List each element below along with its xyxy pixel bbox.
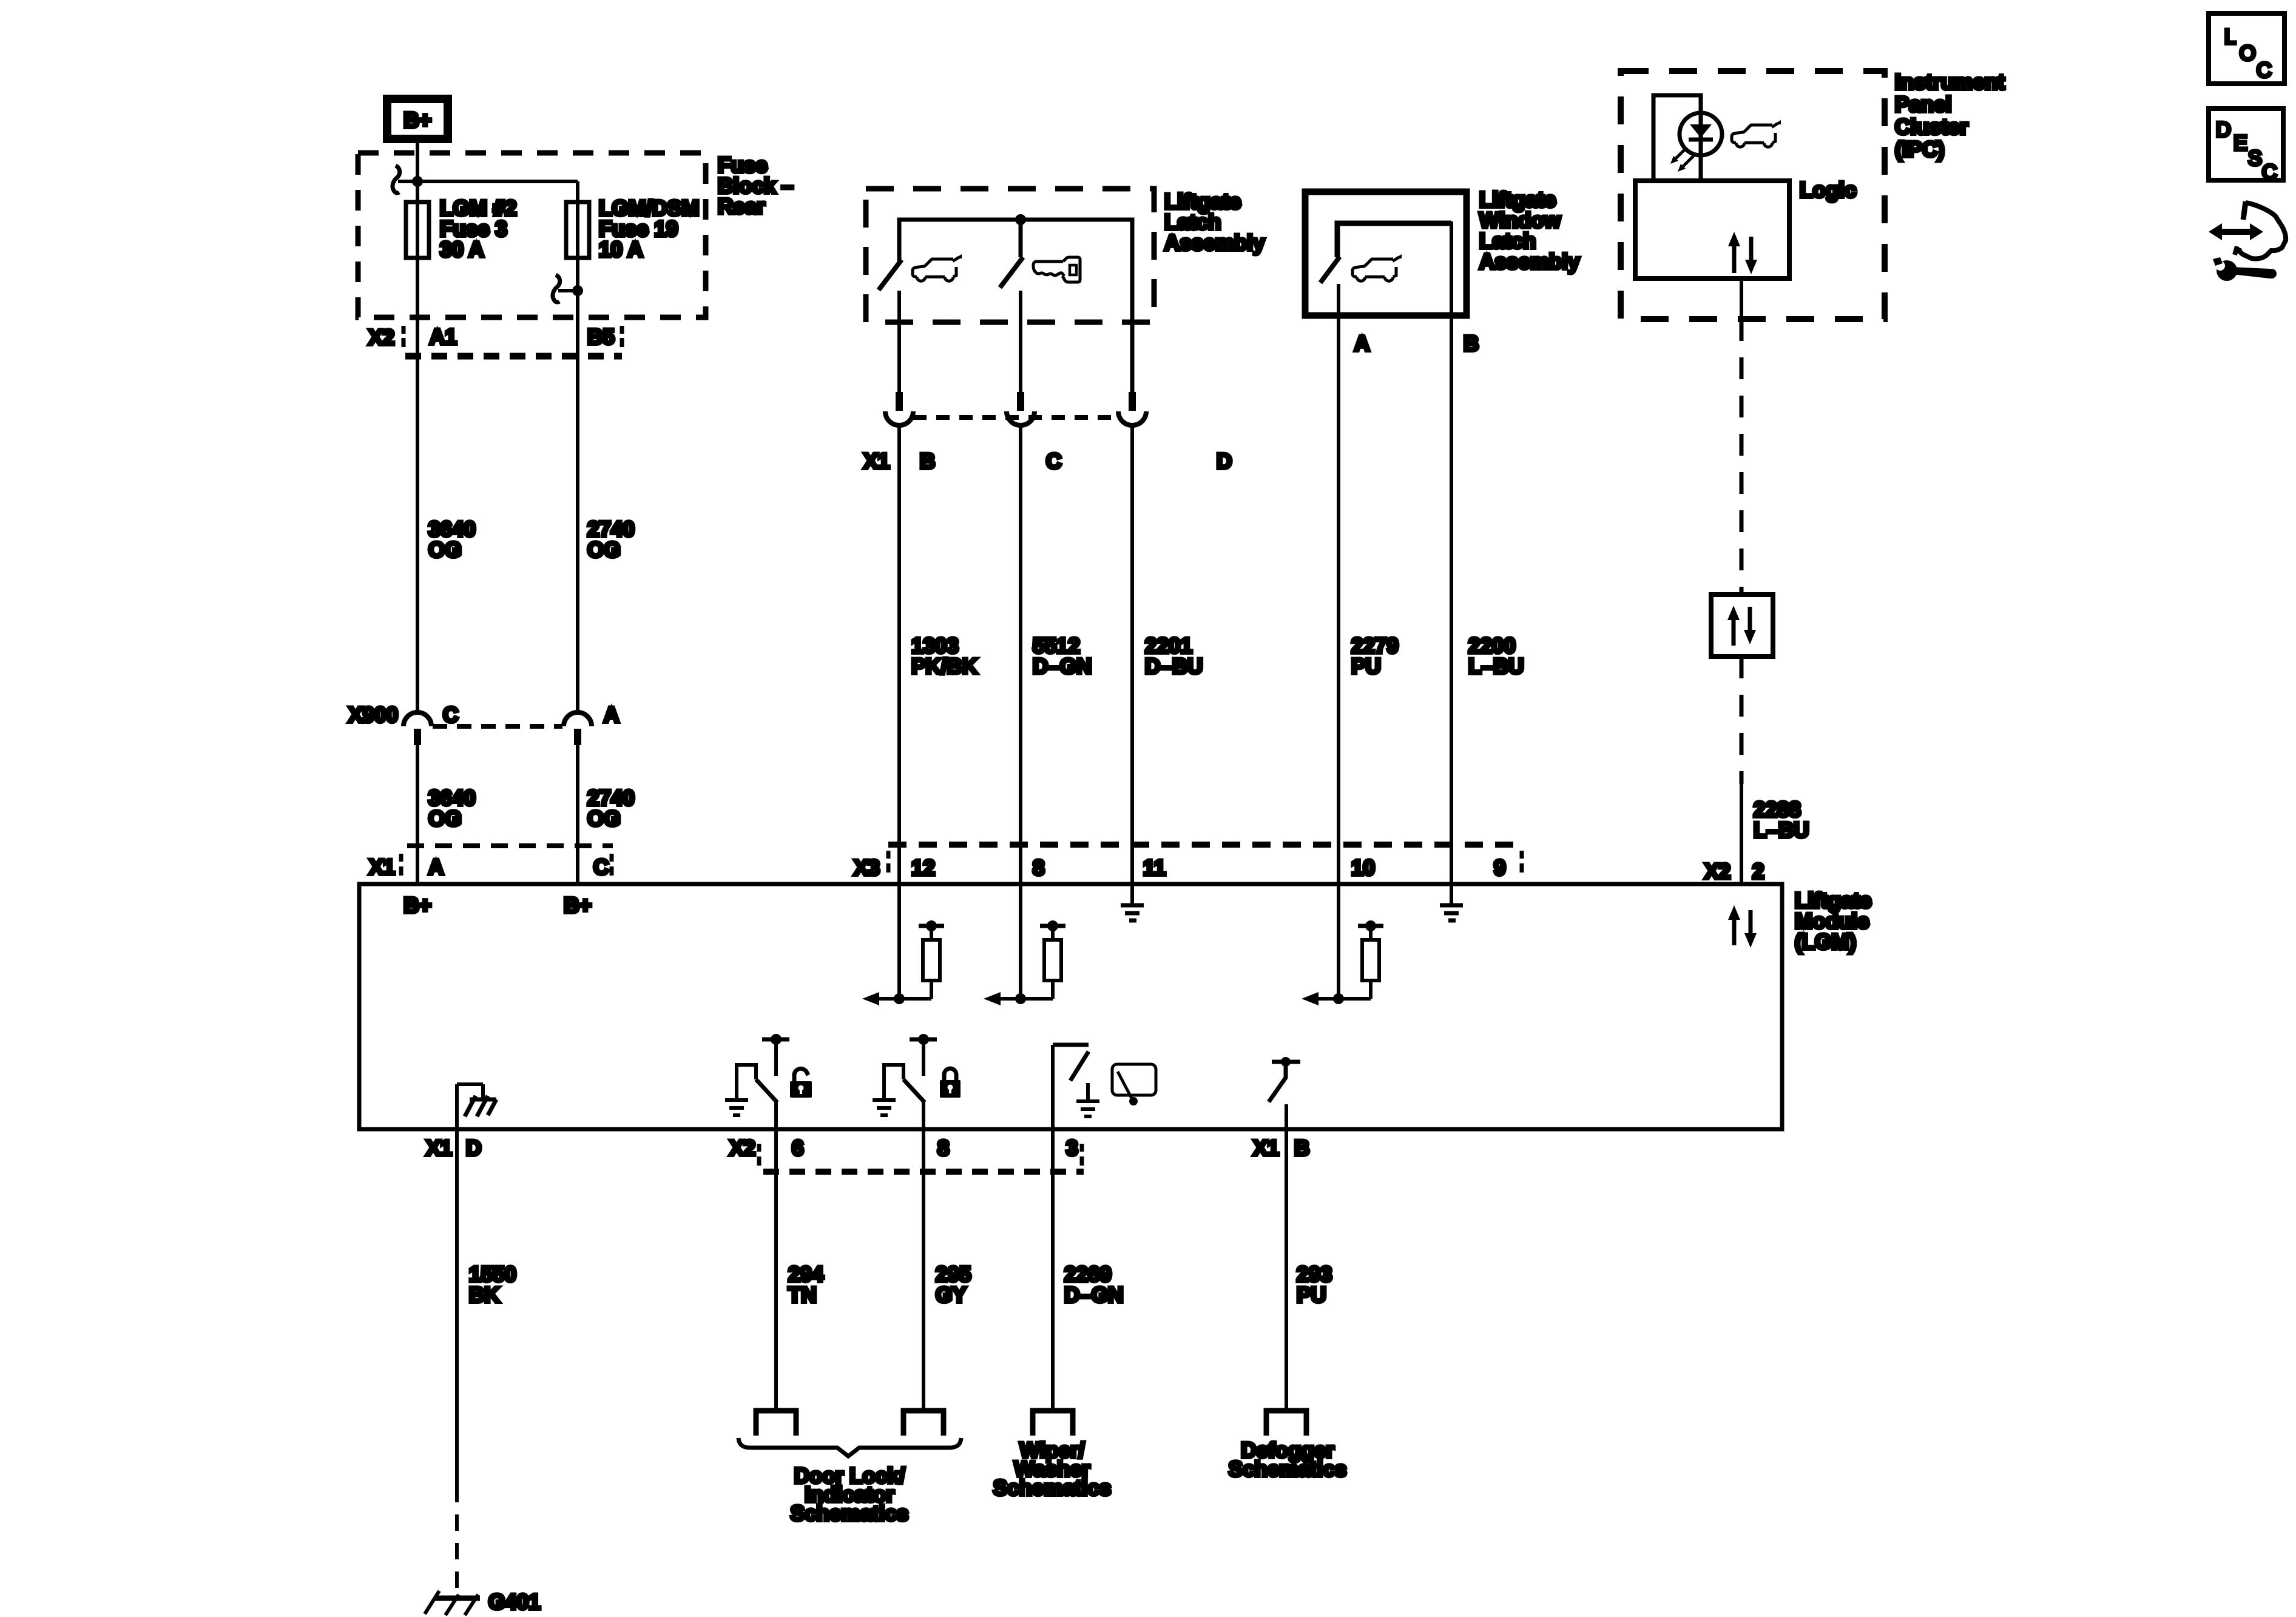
svg-text:L–BU: L–BU [1468, 655, 1524, 678]
LGM serial data arrows [1732, 916, 1737, 945]
svg-text:Schematics: Schematics [1229, 1457, 1347, 1481]
connector X3 dash marks [886, 851, 891, 859]
svg-text:C: C [1046, 450, 1061, 473]
svg-text:Assembly: Assembly [1479, 250, 1580, 274]
icon key [1033, 257, 1080, 282]
svg-text:D: D [2216, 118, 2231, 141]
svg-text:X1: X1 [369, 856, 395, 879]
resistor pull-up [923, 940, 940, 981]
svg-text:Instrument: Instrument [1895, 70, 2005, 94]
wire 3640 OG lower [416, 745, 419, 882]
connector X1 latch dashed link [913, 415, 1118, 420]
svg-text:Schematics: Schematics [993, 1476, 1112, 1500]
IPC indicator housing [1653, 95, 1701, 181]
svg-text:B+: B+ [403, 894, 431, 917]
node wire junction [894, 993, 905, 1004]
off-page terminal 293 [1266, 1411, 1306, 1436]
svg-text:BK: BK [469, 1283, 500, 1307]
signal arrow into module [1302, 992, 1319, 1005]
svg-text:PU: PU [1351, 655, 1381, 678]
wire 1550 BK [455, 1130, 459, 1486]
wire fuse 3 output [416, 260, 419, 713]
fuse LGM #2 Fuse 3 30A [416, 202, 419, 260]
svg-text:X2: X2 [368, 326, 394, 349]
svg-text:A: A [428, 856, 444, 879]
svg-text:Assembly: Assembly [1164, 231, 1265, 255]
wire logic output [1740, 279, 1743, 319]
icon car liftgate (latch) [913, 257, 961, 282]
svg-text:8: 8 [1033, 856, 1044, 880]
chassis ground pin D internal [455, 1084, 459, 1130]
wire B+ to fuse LGM #2 [416, 139, 419, 202]
svg-text:3: 3 [1066, 1136, 1078, 1160]
svg-text:2: 2 [1752, 860, 1764, 883]
wire 2201 D-BU [1130, 425, 1134, 905]
svg-text:S: S [2248, 147, 2262, 170]
splice hook at B+ junction [393, 166, 400, 193]
svg-text:PK/BK: PK/BK [911, 655, 977, 678]
node wire junction [1015, 993, 1026, 1004]
switch contact T pin 1279 [762, 1038, 789, 1042]
splice hook below fuse 19 [553, 275, 560, 302]
svg-text:D: D [1217, 450, 1232, 473]
icon arrow hand wrench [2209, 201, 2286, 281]
wire junction to fuse 19 [417, 180, 578, 183]
off-page terminal 2269 [1033, 1411, 1073, 1436]
connector X900 dashed link [433, 724, 562, 729]
svg-text:D–GN: D–GN [1033, 655, 1092, 678]
connector X1 LGM dashed line [407, 843, 613, 848]
switch ground hook [737, 1065, 756, 1099]
liftgate module LGM box [359, 884, 1782, 1129]
svg-text:(LGM): (LGM) [1795, 930, 1856, 954]
connector X3 dashed line [888, 842, 1522, 848]
node junction fuse 19 output [572, 285, 583, 296]
svg-text:L–BU: L–BU [1754, 819, 1809, 842]
ground pin 9 internal [1450, 886, 1453, 905]
connector X1 latch: pins B C D [896, 392, 903, 411]
svg-text:B: B [920, 450, 935, 473]
svg-text:9: 9 [1494, 856, 1505, 880]
svg-text:G401: G401 [488, 1590, 541, 1614]
wire 295 GY [922, 1101, 925, 1408]
connector X2 bottom dash marks [757, 1144, 761, 1152]
svg-text:X2: X2 [1704, 860, 1730, 883]
svg-text:X900: X900 [348, 703, 398, 727]
wire 5512 D-GN [1019, 425, 1022, 999]
LOC reference box [2209, 13, 2284, 84]
svg-text:OG: OG [587, 807, 620, 831]
signal arrow into module [862, 992, 879, 1005]
key cylinder switch [1019, 220, 1023, 257]
svg-text:OG: OG [428, 807, 461, 831]
switch blade [903, 1079, 925, 1102]
fuse block dashed box [358, 153, 706, 317]
LED light arrows [1676, 148, 1686, 158]
wire 294 TN [774, 1101, 778, 1408]
icon padlock open [790, 1068, 812, 1098]
switch ground hook [884, 1065, 903, 1099]
svg-text:B+: B+ [564, 894, 592, 917]
latch internal bus wire [899, 220, 1132, 393]
connector X900 pin C [403, 712, 431, 726]
svg-text:O: O [2240, 42, 2255, 65]
power symbol B+ [387, 99, 448, 139]
fuse LGM/DSM Fuse 19 10A [576, 202, 579, 260]
icon car liftgate (window latch) [1352, 257, 1400, 282]
svg-text:X3: X3 [854, 856, 880, 880]
svg-text:C: C [2257, 59, 2272, 82]
wiper driver switch pin 3 [1051, 1045, 1055, 1130]
wire fuse 19 output [576, 260, 579, 713]
svg-text:11: 11 [1143, 856, 1166, 880]
off-page terminal 295 [903, 1411, 944, 1436]
svg-text:PU: PU [1297, 1283, 1326, 1307]
dashed wire IPC serial data lower [1740, 657, 1744, 784]
wire 2740 OG lower [576, 745, 579, 882]
svg-text:B+: B+ [403, 109, 431, 132]
svg-text:L: L [2224, 25, 2236, 49]
signal arrow into module [984, 992, 1001, 1005]
wire 1303 PK/BK [897, 425, 901, 999]
svg-text:A: A [1354, 332, 1369, 356]
ground G401 [434, 1596, 480, 1601]
connector X2 dashed line [405, 353, 622, 360]
switch blade [756, 1079, 777, 1102]
resistor pull-up [1044, 940, 1061, 981]
node latch bus junction [1015, 214, 1026, 225]
svg-text:X1: X1 [426, 1136, 452, 1160]
svg-text:A1: A1 [430, 325, 457, 349]
svg-text:Logic: Logic [1800, 178, 1856, 202]
svg-text:8: 8 [937, 1136, 949, 1160]
wiper switch ground [1086, 1083, 1090, 1101]
dashed wire to G401 [455, 1486, 459, 1595]
instrument panel cluster dashed box [1621, 71, 1885, 319]
svg-text:B: B [1294, 1136, 1309, 1160]
svg-text:Cluster: Cluster [1895, 115, 1968, 139]
svg-text:Schematics: Schematics [791, 1502, 909, 1525]
svg-text:C: C [2262, 161, 2277, 184]
connector X2 dash marks [402, 326, 406, 334]
node pull-up terminal pin 1482 [919, 924, 944, 928]
wire 2279 PU [1337, 284, 1340, 999]
off-page terminal 294 [756, 1411, 796, 1436]
resistor pull-up [1362, 940, 1379, 981]
node junction B+ feed [412, 176, 423, 187]
icon padlock closed [940, 1068, 961, 1098]
icon car liftgate (IPC) [1732, 123, 1780, 147]
IPC logic box [1635, 181, 1789, 279]
liftgate latch assembly dashed box [866, 189, 1154, 322]
svg-text:A: A [604, 703, 619, 727]
dashed wire IPC serial data upper [1740, 319, 1744, 595]
svg-text:GY: GY [936, 1283, 967, 1307]
svg-text:E: E [2234, 132, 2247, 155]
wire 2288 L-BU [1740, 784, 1743, 882]
svg-text:TN: TN [788, 1283, 817, 1307]
svg-text:(IPC): (IPC) [1895, 138, 1945, 161]
svg-text:C: C [443, 703, 458, 727]
svg-text:10 A: 10 A [599, 238, 643, 262]
window latch inner housing [1337, 223, 1451, 257]
wire 2269 D-GN [1051, 1130, 1055, 1408]
svg-text:B5: B5 [587, 325, 615, 349]
svg-text:Rear: Rear [718, 195, 765, 218]
svg-text:C: C [593, 856, 609, 879]
icon wiper [1112, 1064, 1156, 1095]
node pull-up terminal pin 2206 [1358, 924, 1383, 928]
svg-text:30 A: 30 A [440, 238, 484, 262]
brace door lock wires [738, 1438, 961, 1456]
svg-text:OG: OG [587, 538, 620, 562]
svg-text:12: 12 [911, 856, 935, 880]
svg-text:D: D [466, 1136, 481, 1160]
svg-text:OG: OG [428, 538, 461, 562]
window latch switch blade [1320, 257, 1340, 283]
svg-text:Panel: Panel [1895, 93, 1951, 116]
svg-text:10: 10 [1351, 856, 1375, 880]
svg-text:B: B [1464, 332, 1479, 356]
connector X1 dash marks [399, 854, 403, 862]
DESC reference box [2209, 109, 2283, 180]
svg-text:D–GN: D–GN [1064, 1283, 1123, 1307]
connector X2 bottom dashed line [763, 1169, 1084, 1175]
node wire junction [1333, 993, 1344, 1004]
wire 2200 L-BU [1450, 221, 1453, 905]
svg-text:6: 6 [792, 1136, 803, 1160]
svg-text:X1: X1 [1253, 1136, 1279, 1160]
liftgate ajar switch [879, 260, 902, 290]
logic up/down arrows [1732, 243, 1737, 273]
switch contact T pin 1522 [910, 1038, 937, 1042]
LED indicator [1680, 113, 1722, 155]
wire 293 PU [1285, 1130, 1288, 1408]
node pull-up terminal pin 1682 [1040, 924, 1065, 928]
svg-text:X2: X2 [729, 1136, 755, 1160]
svg-text:D–BU: D–BU [1145, 655, 1203, 678]
serial data arrow box [1711, 595, 1773, 657]
connector X900 pin A [564, 712, 592, 726]
svg-text:X1: X1 [863, 450, 890, 473]
ground pin 11 internal [1130, 886, 1134, 905]
liftgate window latch assembly box [1305, 192, 1467, 316]
defogger driver switch pin B [1272, 1060, 1300, 1064]
